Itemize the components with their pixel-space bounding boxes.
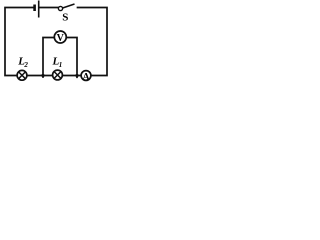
svg-text:S: S xyxy=(62,11,68,23)
svg-text:1: 1 xyxy=(59,61,63,69)
svg-text:2: 2 xyxy=(23,61,28,69)
svg-text:A: A xyxy=(83,72,90,82)
svg-text:V: V xyxy=(57,33,65,44)
